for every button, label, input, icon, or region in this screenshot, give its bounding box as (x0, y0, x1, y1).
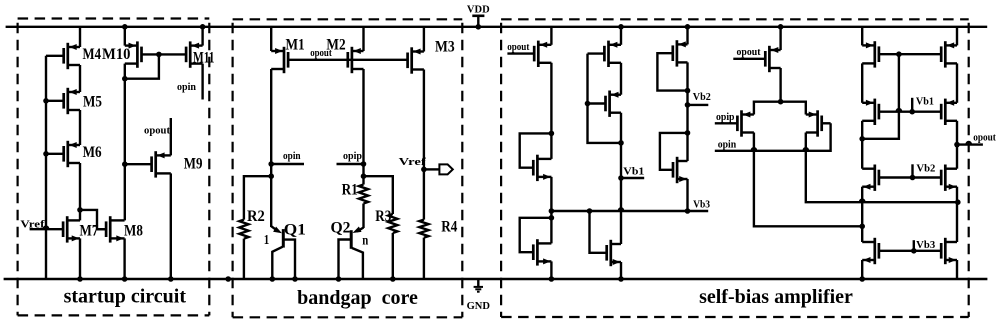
node opout junction (954, 142, 960, 148)
transistor D3 (opin PMOS) (816, 110, 819, 136)
wire crossing D3 drain over opin (804, 148, 809, 150)
wire R3 branch (364, 176, 393, 214)
wire opin stub (271, 163, 304, 165)
svg-text:self-bias amplifier: self-bias amplifier (699, 286, 853, 308)
transistor B1 (PMOS) (607, 41, 610, 67)
wire tail node (754, 102, 806, 115)
node B4 gate on Vb3 line (587, 208, 593, 214)
node E4 source on GND rail (859, 276, 865, 282)
transistor D1 (tail PMOS) (768, 46, 771, 72)
svg-text:startup circuit: startup circuit (64, 286, 187, 308)
node M9 gate junction (122, 161, 128, 167)
node M9 source on GND rail (168, 276, 174, 282)
wire M11 source to VDD (201, 27, 203, 46)
node Q1 base on GND rail (292, 276, 298, 282)
resistor R4 (419, 220, 428, 238)
node R2 branch junction (268, 173, 274, 179)
node tail junction (778, 99, 784, 105)
svg-text:Vb2: Vb2 (693, 92, 711, 103)
wire F2 drain to F3 (956, 121, 958, 169)
wire R4 to GND (423, 238, 425, 279)
svg-text:M10: M10 (102, 46, 131, 63)
node M8 source on GND rail (122, 276, 128, 282)
self-bias amplifier dashed box (501, 18, 969, 20)
wire crossing B column over Vb3 (619, 208, 624, 210)
svg-text:opin: opin (718, 140, 737, 151)
node B2 gate junction (585, 101, 591, 107)
transistor C1 (diode PMOS) (676, 40, 679, 66)
node Vref junction (421, 167, 427, 173)
transistor F3 (NMOS) (944, 165, 947, 191)
node E2 drain junction (859, 136, 865, 142)
svg-text:Vb3: Vb3 (916, 240, 935, 251)
wire Vref to output port (424, 168, 440, 170)
wire B column lower (620, 113, 622, 244)
node M7 source on GND rail (77, 276, 83, 282)
node Vb1 tick junction (909, 109, 915, 115)
node C1 drain junction (685, 88, 691, 94)
wire B1 drain to B2 source (620, 63, 622, 95)
node E4 drain junction (859, 224, 865, 230)
wire Vref to M7 gate (30, 228, 64, 230)
node A3 source on GND rail (549, 276, 555, 282)
node B1 source on VDD rail (618, 24, 624, 30)
wire D2 drain to E column (754, 133, 862, 227)
svg-text:opout: opout (507, 42, 530, 53)
svg-text:M3: M3 (435, 38, 455, 55)
wire M4 source to VDD (79, 27, 81, 47)
wire F4 source to GND (956, 260, 958, 279)
node Q1 collector on GND rail (270, 276, 276, 282)
transistor Q2 (350, 230, 353, 249)
transistor M4 (66, 43, 69, 69)
wire M1 source to VDD (270, 27, 272, 51)
wire Vb3 row4 gate line (879, 250, 941, 252)
transistor M11 (189, 41, 192, 67)
wire R2 branch (244, 176, 271, 219)
node Vb3 line start (549, 208, 555, 214)
wire M8 source to GND (123, 238, 125, 279)
node F4 drain junction (955, 199, 961, 205)
transistor M3 (410, 47, 413, 73)
node B4 source on GND rail (618, 276, 624, 282)
transistor M1 (283, 47, 286, 73)
svg-text:Q1: Q1 (284, 221, 306, 238)
wire M5 drain to M6 (79, 110, 81, 145)
wire D3 drain to F column (806, 133, 958, 203)
svg-text:1: 1 (264, 233, 270, 248)
svg-text:Q2: Q2 (331, 219, 351, 236)
svg-text:M6: M6 (83, 144, 102, 161)
wire C2 gate loop (660, 133, 688, 170)
transistor F1 (PMOS) (944, 41, 947, 67)
node M6 gate junction (43, 151, 49, 157)
wire C2 source to Vb3 (686, 179, 688, 211)
wire E4 source to GND (861, 260, 863, 279)
svg-text:M9: M9 (184, 155, 203, 172)
transistor F2 (PMOS) (944, 99, 947, 125)
wire M10 source to VDD (124, 27, 126, 46)
transistor C2 (diode NMOS) (676, 157, 679, 183)
wire crossing E column over D3 drain (860, 199, 865, 201)
wire C column (686, 62, 688, 161)
svg-text:opin: opin (283, 151, 301, 162)
transistor M8 (109, 216, 112, 242)
wire opip stub (337, 163, 364, 165)
svg-text:opout: opout (144, 125, 170, 136)
wire crossing D2 drain over opin (752, 148, 757, 150)
wire B4 source to GND (620, 262, 622, 279)
wire F1 source to VDD (956, 27, 958, 46)
node A2 drain junction (549, 131, 555, 137)
svg-text:Vref: Vref (399, 157, 427, 168)
node M10 source on VDD rail (122, 24, 128, 30)
transistor B2 (PMOS) (608, 91, 611, 117)
transistor M10 (136, 41, 139, 67)
wire crossing gate feed over Vb1 (897, 109, 902, 111)
svg-text:R1: R1 (342, 182, 358, 199)
wire D1 source to VDD (779, 27, 781, 50)
wire A3 gate loop (520, 218, 552, 252)
wire M10 drain column (124, 64, 126, 221)
wire M2 drain to R1 (362, 69, 364, 185)
resistor R1 (359, 185, 368, 204)
wire B1 source to VDD (620, 27, 622, 45)
wire crossing opout over border (966, 142, 971, 144)
svg-text:Vb1: Vb1 (623, 167, 644, 178)
wire E3 source to E4 drain (861, 187, 863, 242)
startup circuit dashed box (18, 17, 210, 19)
wire M7 drain to M8 gate (80, 210, 106, 229)
wire GND rail (4, 278, 988, 280)
wire row1 gate line (879, 53, 941, 55)
ground (477, 279, 479, 287)
transistor E2 (PMOS) (873, 99, 876, 125)
node Vb2 stub junction (685, 102, 691, 108)
wire M7 source to GND (79, 238, 81, 279)
wire Vb1 tick (911, 98, 913, 112)
wire C1 source to VDD (686, 27, 688, 45)
svg-text:M7: M7 (80, 223, 99, 240)
wire Vb3 tick (913, 240, 915, 251)
svg-text:opout: opout (973, 133, 996, 144)
wire F3 source to F4 drain (956, 187, 958, 242)
transistor M2 (351, 47, 354, 73)
wire M4 drain to M5 (79, 65, 81, 92)
wire A column upper (550, 63, 552, 159)
transistor E4 (NMOS) (873, 238, 876, 264)
transistor D2 (opip PMOS) (740, 110, 743, 136)
output port Vref (439, 164, 452, 174)
wire E1 source to VDD (861, 27, 863, 46)
svg-text:M5: M5 (83, 94, 102, 111)
wire M11 drain opin stub (201, 64, 203, 100)
wire crossing Vref over gate line (44, 226, 49, 228)
node between boxes on GND rail (225, 276, 231, 282)
node opin junction (268, 161, 274, 167)
transistor A2 (diode NMOS) (536, 155, 539, 181)
node Vb1 stub junction (618, 175, 624, 181)
svg-text:opip: opip (716, 112, 735, 123)
node M10 drain junction (122, 76, 128, 82)
wire M9 drain opout stub (170, 118, 172, 155)
node C1 source on VDD rail (685, 24, 691, 30)
svg-text:opout: opout (310, 48, 332, 59)
transistor M6 (66, 141, 69, 167)
node Vb2 tick junction (910, 175, 916, 181)
svg-text:M8: M8 (124, 223, 143, 240)
svg-text:VDD: VDD (467, 4, 490, 15)
wire A3 source to GND (550, 261, 552, 279)
wire M2 source to VDD (362, 27, 364, 51)
wire B gate loop (588, 54, 622, 143)
wire M6 drain to M7 drain (79, 163, 81, 220)
node M11 source on VDD rail (200, 24, 206, 30)
svg-text:opout: opout (737, 47, 761, 58)
wire R2 to GND (243, 239, 245, 279)
svg-text:Vb3: Vb3 (693, 200, 710, 211)
wire M3 drain to R4 (423, 70, 425, 220)
wire Vb2 stub (688, 104, 709, 106)
node C2 source on Vb3 line (685, 208, 691, 214)
wire VDD rail (6, 26, 988, 28)
wire M10 diode loop (125, 54, 159, 78)
node M5 gate junction (43, 98, 49, 104)
wire A2 gate loop (520, 133, 552, 167)
bandgap core dashed box (233, 18, 463, 20)
wire Vb1 line (879, 110, 941, 112)
node row1 gate junction (896, 51, 902, 57)
wire A1 source to VDD (550, 27, 552, 45)
svg-text:Vb1: Vb1 (916, 96, 934, 107)
wire E1 drain to E2 source (861, 63, 863, 102)
resistor R2 (239, 220, 248, 239)
node B2 drain junction (618, 140, 624, 146)
wire F1 drain to F2 source (956, 63, 958, 102)
svg-text:R3: R3 (375, 208, 391, 225)
svg-text:Vb2: Vb2 (916, 164, 935, 175)
svg-text:R2: R2 (247, 208, 265, 225)
node D1 source on VDD rail (778, 24, 784, 30)
node A3 gate junction (549, 215, 555, 221)
svg-text:opin: opin (177, 82, 196, 93)
svg-text:n: n (362, 233, 368, 248)
node R1 R3 branch junction (361, 173, 367, 179)
svg-text:R4: R4 (441, 218, 457, 235)
wire E2 drain to E3 (861, 121, 863, 169)
wire Vb3 line (551, 210, 708, 212)
wire D1 drain to tail (779, 68, 781, 102)
node M10-M11 gate junction (156, 52, 162, 58)
wire M3 source to VDD (423, 27, 425, 52)
svg-text:Vref: Vref (20, 220, 45, 231)
wire C1 gate loop (657, 53, 687, 90)
wire opout stub (957, 143, 983, 145)
resistor R3 (388, 214, 397, 233)
node opip junction (361, 161, 367, 167)
transistor E1 (PMOS) (873, 41, 876, 67)
node M7 drain junction (77, 207, 83, 213)
node Vb3 tick junction (911, 248, 917, 254)
VDD supply tap (472, 15, 484, 18)
transistor F4 (NMOS) (944, 238, 947, 264)
svg-text:M4: M4 (83, 46, 102, 63)
wire Vb1 stub (621, 177, 644, 179)
wire Vb2 row3 gate line (879, 176, 941, 178)
wire gate feed to E2 drain (862, 54, 899, 139)
wire A column mid (550, 177, 552, 244)
wire M9 source to GND (170, 173, 172, 279)
wire opin line (715, 123, 831, 151)
svg-text:M1: M1 (286, 37, 305, 54)
node Q2 base on GND rail (336, 276, 342, 282)
transistor M7 (66, 216, 69, 242)
svg-text:opip: opip (343, 151, 362, 162)
transistor E3 (NMOS) (873, 165, 876, 191)
transistor Q1 (282, 229, 285, 248)
node R3 on GND rail (390, 276, 396, 282)
wire M1 drain to Q1 emitter (270, 69, 272, 227)
transistor A1 (opout PMOS) (537, 41, 540, 67)
wire R3 to GND (392, 233, 394, 279)
wire M4-M6 gate line (45, 56, 47, 279)
wire B4 gate loop (590, 211, 607, 253)
transistor A3 (diode NMOS) (536, 239, 539, 265)
wire Vb2 tick (911, 164, 913, 177)
wire M1-M3 gate line opout (288, 59, 408, 61)
svg-text:bandgap core: bandgap core (297, 287, 418, 309)
svg-text:GND: GND (467, 301, 491, 312)
transistor B4 (NMOS) (609, 240, 612, 266)
node C2 drain junction (685, 130, 691, 136)
wire R1 to Q2 emitter (362, 204, 364, 229)
transistor M9 (154, 151, 157, 177)
transistor M5 (66, 88, 69, 114)
